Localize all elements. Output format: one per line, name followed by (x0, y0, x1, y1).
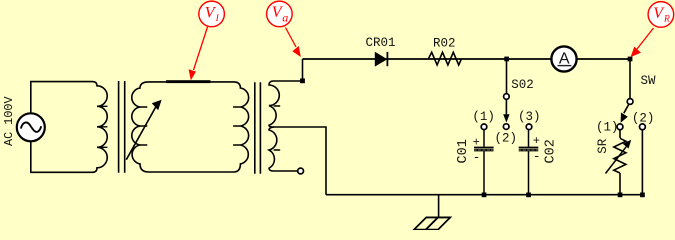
svg-text:-: - (473, 150, 481, 165)
wire AC loop left/top/bottom (31, 82, 93, 173)
junction dot C02/bottom rail (526, 193, 531, 198)
junction dot SR/bottom rail (618, 193, 623, 198)
contact circle (1) of SW (617, 124, 623, 130)
svg-text:+: + (533, 134, 540, 148)
open terminal circle of T2 (298, 168, 304, 174)
probe VI (199, 1, 225, 27)
probe VI arrow (194, 27, 208, 70)
switch S02 (506, 59, 508, 94)
svg-text:AC 100V: AC 100V (2, 96, 16, 146)
node S02 junction on top rail (504, 57, 509, 62)
svg-text:R02: R02 (433, 37, 456, 51)
svg-text:S02: S02 (511, 78, 534, 92)
wire top rail (303, 58, 631, 60)
svg-text:-: - (533, 149, 541, 164)
transformer T2 core (255, 82, 261, 174)
probe VR (648, 2, 674, 28)
svg-text:CR01: CR01 (366, 36, 396, 50)
wire SW contact 2 down (641, 130, 643, 195)
capacitor C01 (483, 130, 485, 147)
contact circle (3) of S02 (526, 124, 532, 130)
slidac secondary winding (scalloped rectangle) (132, 82, 249, 172)
ground stub (438, 195, 440, 218)
probe Va arrow (286, 28, 297, 48)
ground symbol (426, 216, 451, 218)
capacitor C02 (528, 130, 530, 147)
transformer T1 primary winding (93, 82, 108, 173)
winding cusp ticks (101, 106, 281, 150)
probe Va (267, 1, 293, 27)
transformer T1 core (119, 81, 125, 173)
ammeter A (551, 46, 576, 71)
svg-text:SW: SW (641, 74, 657, 88)
switch SW (629, 59, 631, 99)
svg-text:+: + (473, 135, 480, 149)
node VR junction (628, 57, 633, 62)
AC source V1 (17, 113, 45, 141)
slidac wiper arrow (126, 104, 158, 159)
svg-text:(1): (1) (472, 110, 495, 124)
resistor R02 (429, 52, 462, 65)
svg-text:C02: C02 (543, 139, 558, 163)
node Va riser (302, 59, 304, 81)
rheostat SR (619, 130, 621, 138)
probe VR arrow (637, 28, 654, 49)
contact circle (1) of S02 (481, 124, 487, 130)
wire T2 tap to bottom rail (274, 127, 326, 195)
svg-text:R: R (663, 15, 670, 25)
svg-text:(1): (1) (596, 120, 619, 134)
diode CR01 (375, 53, 386, 66)
junction dot SW(2)/bottom rail (640, 193, 645, 198)
transformer T2 secondary upper winding (269, 81, 303, 127)
svg-text:(2): (2) (495, 131, 518, 145)
svg-text:(3): (3) (518, 110, 541, 124)
slidac tap bar (VI probe point) (166, 80, 211, 83)
wire bottom rail (326, 194, 642, 196)
svg-text:a: a (282, 10, 288, 24)
transformer T2 secondary lower winding (269, 127, 298, 171)
junction dot C01/bottom rail (482, 193, 487, 198)
svg-text:C01: C01 (456, 139, 471, 163)
svg-text:SR: SR (596, 138, 610, 154)
contact circle (2) of SW (640, 124, 646, 130)
